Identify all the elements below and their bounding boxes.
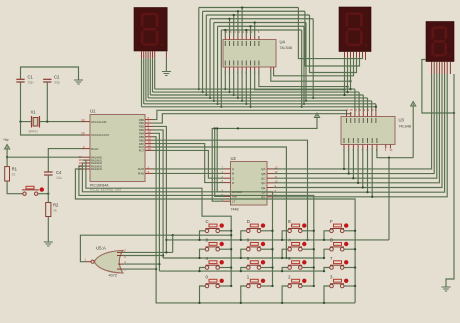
U4 bottom pin 7 name mark xyxy=(250,61,252,66)
U4 top pin 5 stub xyxy=(241,36,243,40)
svg-text:E: E xyxy=(288,219,291,224)
wire U4 right pin b xyxy=(271,70,351,81)
junction segment bus 6 end xyxy=(375,106,377,108)
junction U4 bottom pin 5 bus xyxy=(241,100,243,102)
svg-text:U2: U2 xyxy=(231,156,237,161)
resistor R2 xyxy=(46,203,51,217)
wire DS2 pin1 drop xyxy=(344,58,346,96)
U2 pin QB stub xyxy=(267,173,274,175)
U3 bottom pin 7 stub xyxy=(371,145,373,149)
DS2 segment pin 1 stub xyxy=(344,52,346,58)
wire RB7 to U2 D xyxy=(153,144,225,183)
U1 pin RB0 stub xyxy=(145,119,153,121)
svg-text:RB5: RB5 xyxy=(139,135,145,139)
junction button 9 row xyxy=(240,257,242,259)
junction U4 bottom pin 3 bus xyxy=(233,94,235,96)
junction U4 pin loop 1 xyxy=(237,10,239,12)
wire button E left to row xyxy=(282,231,288,240)
DS3 common pin stub xyxy=(449,62,451,75)
wire U3 bottom pin 1 to bus xyxy=(343,149,345,169)
wire DS1 common to ground xyxy=(165,58,167,71)
U5:A input3 stub xyxy=(117,255,123,257)
U5:A input2 stub xyxy=(117,251,123,253)
U4 top pin 8 stub xyxy=(254,36,256,40)
U3 top pin 4 stub xyxy=(358,112,360,116)
wire U4 bottom pin 2 drop xyxy=(229,70,231,92)
U4 bottom pin 1 name mark xyxy=(224,61,226,66)
wire button 1 left to row xyxy=(241,286,247,303)
U3 bottom pin 4 stub xyxy=(357,145,359,149)
U1 pin RA1 stub xyxy=(83,159,91,161)
push button 1 body xyxy=(247,279,261,288)
wire segment bus 0 to U3 top pin 3 xyxy=(354,89,356,112)
DS2 segment pin 3 stub xyxy=(350,52,352,58)
ground below R2 xyxy=(44,242,53,246)
junction +5V rail RBI branch xyxy=(214,127,216,129)
wire segment bus 1 to U3 top pin 4 xyxy=(358,92,360,112)
wire loop right drop 6 xyxy=(301,30,303,107)
or-gate U5:A body xyxy=(94,250,123,273)
U4 top pin 4 stub xyxy=(237,36,239,40)
wire RC6 to row2 right xyxy=(153,147,287,258)
svg-text:RA5: RA5 xyxy=(138,167,144,171)
wire U4 loop left drop 4 xyxy=(213,23,215,101)
U3 bottom pin 8 name mark xyxy=(376,138,378,143)
U4 top pin 2 name mark xyxy=(229,41,231,46)
wire DS2 pin2 drop xyxy=(347,58,349,93)
U5:A input5 stub xyxy=(117,268,123,270)
U1 pin OSC2/CLKOUT stub xyxy=(83,134,91,136)
junction RB6 row1 xyxy=(306,239,308,241)
wire U4 output loop riser 2 xyxy=(233,15,235,36)
wire U4 loop left drop 1 xyxy=(202,11,204,92)
U4 bottom pin 1 stub xyxy=(224,67,226,70)
DS3 segment pin 2 stub xyxy=(433,62,435,75)
U2 pin RBI stub xyxy=(224,195,231,197)
U4 bottom pin 6 stub xyxy=(245,67,247,70)
push button 2 body xyxy=(288,279,302,288)
wire DS1 riser 5 xyxy=(143,58,145,103)
wire reset button to node xyxy=(38,193,48,195)
wire button 5 left to row xyxy=(241,268,247,272)
U3 top pin 2 name mark xyxy=(350,118,352,123)
junction button A column xyxy=(313,248,315,250)
DS2 segment pin 2 stub xyxy=(347,52,349,58)
wire DS2 pin3 drop xyxy=(350,58,352,90)
wire U4 loop top 4 xyxy=(214,22,306,24)
U3 top pin 6 name mark xyxy=(367,118,369,123)
DS3 segment pin 3 stub xyxy=(436,62,438,75)
wire +5V rail to U2 RBI xyxy=(215,128,224,196)
junction loop-left segment bus 3 xyxy=(209,97,211,99)
wire U4 loop top 2 xyxy=(206,14,309,16)
junction loop-left segment bus 0 xyxy=(198,88,200,90)
U3 top pin 5 name mark xyxy=(362,118,364,123)
svg-text:1k: 1k xyxy=(53,209,57,213)
U3 bottom pin 1 name mark xyxy=(343,138,345,143)
push button 6 body xyxy=(288,261,302,270)
svg-text:RB4: RB4 xyxy=(139,132,145,136)
U4 top pin 7 stub xyxy=(250,36,252,40)
wire U4 pin16 riser xyxy=(224,30,226,36)
svg-text:U3: U3 xyxy=(399,118,405,123)
U1 pin OSC1/CLKIN stub xyxy=(83,121,91,123)
wire node to crystal left xyxy=(21,121,32,123)
capacitor C2 xyxy=(43,79,51,82)
junction button 8 row xyxy=(198,257,200,259)
svg-text:R2: R2 xyxy=(53,203,59,208)
wire keypad row1 xyxy=(166,239,389,241)
svg-text:26: 26 xyxy=(148,147,152,151)
push button D body xyxy=(247,224,261,233)
junction +5V rail BI branch xyxy=(216,127,218,129)
svg-text:X1: X1 xyxy=(31,110,37,115)
svg-text:R1: R1 xyxy=(12,167,18,172)
junction U4 pin loop 3 xyxy=(228,18,230,20)
junction button D column xyxy=(271,230,273,232)
wire button F right to column xyxy=(344,230,355,232)
svg-text:PIC16F84A: PIC16F84A xyxy=(90,184,109,188)
U4 top pin 8 name mark xyxy=(254,41,256,46)
wire U2 output bus line 0 xyxy=(274,74,432,169)
U4 bottom pin 10 stub xyxy=(270,67,272,70)
U4 top pin 1 stub xyxy=(224,36,226,40)
U1 pin MCLR stub xyxy=(83,148,91,150)
junction U4 bottom pin 4 bus xyxy=(237,97,239,99)
wire RA1 to column1 xyxy=(83,160,232,286)
U3 top pin 7 stub xyxy=(371,112,373,116)
wire U4 bottom pin 4 drop xyxy=(237,70,239,98)
U1 pin RB7 stub xyxy=(145,143,153,145)
wire PIC to U2 A xyxy=(153,168,225,170)
push button D red actuator xyxy=(261,223,265,227)
U2 pin QD stub xyxy=(267,182,274,184)
wire MCLR run xyxy=(48,149,84,172)
DS3 segment pin 5 stub xyxy=(441,62,443,75)
wire loop right drop 5 xyxy=(303,26,305,104)
wire gate input2 xyxy=(122,255,163,257)
wire U4 bottom pin 6 drop xyxy=(245,70,247,104)
U3 bottom pin 5 name mark xyxy=(362,138,364,143)
junction U4 bottom pin 6 bus xyxy=(245,103,247,105)
junction loop-left segment bus 2 xyxy=(205,94,207,96)
power +5V centre xyxy=(314,113,319,118)
U3 top pin 2 stub xyxy=(350,112,352,116)
junction button B column xyxy=(354,248,356,250)
7-segment display DS1 xyxy=(134,8,167,52)
wire U4 bottom pin 3 drop xyxy=(233,70,235,95)
U5:A input4 stub xyxy=(118,263,123,265)
wire +5V to RA0 node xyxy=(6,149,8,157)
U3 bottom pin 2 stub xyxy=(348,145,350,149)
button RESET red actuator xyxy=(40,187,44,191)
wire DS1 riser 4 xyxy=(145,58,147,101)
svg-text:16: 16 xyxy=(81,118,85,122)
wire button C right to column xyxy=(220,230,232,232)
U1 pin RA0 stub xyxy=(83,156,91,158)
wire button E right to column xyxy=(302,230,314,232)
junction reset node xyxy=(47,193,49,195)
U2 pin QA stub xyxy=(267,168,274,170)
wire segment bus 2 to U3 top pin 5 xyxy=(362,95,364,112)
U4 bottom pin 4 name mark xyxy=(237,61,239,66)
junction loop-left segment bus 6 xyxy=(220,106,222,108)
wire U3 BI line xyxy=(377,149,413,158)
U3 top pin 6 stub xyxy=(367,112,369,116)
wire button 8 left to row xyxy=(200,249,206,258)
wire U4 right pin d xyxy=(255,70,345,90)
wire U2 output bus line 4 xyxy=(274,74,443,188)
U4 top pin 7 name mark xyxy=(250,41,252,46)
wire button B left to row xyxy=(324,249,330,258)
wire RB2 row1 feed xyxy=(153,126,167,252)
U3 bottom pin 9 stub xyxy=(385,145,387,149)
U2 pin QF stub xyxy=(267,191,274,193)
wire U4 output loop riser 0 xyxy=(241,8,243,37)
junction button 2 row xyxy=(281,302,283,304)
wire button F left to row xyxy=(324,231,330,240)
junction U4 pin loop 4 xyxy=(254,21,256,23)
U4 bottom pin 2 name mark xyxy=(229,61,231,66)
svg-text:C2: C2 xyxy=(54,75,60,80)
wire PIC to U2 B xyxy=(153,172,225,174)
junction loop-left segment bus 1 xyxy=(201,91,203,93)
DS2 segment pin 4 stub xyxy=(353,52,355,58)
svg-text:10u: 10u xyxy=(56,176,62,180)
U3 bottom pin 10 stub xyxy=(389,145,391,149)
wire RA3 to column3 xyxy=(79,166,314,286)
wire button 0 right to column xyxy=(220,285,232,287)
wire R2 to ground xyxy=(47,217,49,243)
junction button 5 column xyxy=(271,266,273,268)
junction loop-left segment bus 5 xyxy=(216,103,218,105)
svg-text:C: C xyxy=(206,219,209,224)
svg-text:RA4/AN4: RA4/AN4 xyxy=(91,167,102,171)
U3 bottom pin 6 stub xyxy=(367,145,369,149)
junction RB3/input2 xyxy=(162,254,164,256)
svg-text:7448: 7448 xyxy=(231,208,239,212)
svg-text:U1: U1 xyxy=(90,109,96,114)
decoder U2 body xyxy=(231,162,268,206)
U2 pin C stub xyxy=(224,177,231,179)
wire button 7 left to row xyxy=(324,268,330,272)
U2 pin QC stub xyxy=(267,177,274,179)
U3 top pin 1 name mark xyxy=(346,118,348,123)
junction gate output column1 xyxy=(230,234,232,236)
wire U4 bottom pin 7 drop xyxy=(250,70,252,107)
junction button 3 row xyxy=(323,302,325,304)
wire C4 to reset node xyxy=(47,175,49,194)
wire U4 loop left drop 2 xyxy=(205,15,207,95)
wire button 8 right to column xyxy=(220,248,232,250)
wire keypad row2 xyxy=(163,257,324,259)
U3 bottom pin 6 name mark xyxy=(367,138,369,143)
push button E red actuator xyxy=(302,223,306,227)
capacitor C1 xyxy=(16,79,24,82)
svg-text:QE: QE xyxy=(261,186,265,190)
U4 bottom pin 9 stub xyxy=(258,67,260,70)
DS2 segment pin 6 stub xyxy=(359,52,361,58)
push button 5 red actuator xyxy=(261,260,265,264)
wire segment bus line 5 xyxy=(144,103,376,105)
junction RB2/row1 xyxy=(165,239,167,241)
wire RB3 row2 feed xyxy=(153,130,164,258)
U2 pin QG stub xyxy=(267,196,274,198)
junction RB5/gate input4 xyxy=(155,268,157,270)
crystal X1 xyxy=(32,116,40,128)
svg-text:F: F xyxy=(330,219,333,224)
junction C1/crystal xyxy=(19,120,21,122)
wire DS1 riser 1 xyxy=(152,58,154,92)
U1 pin RB4 stub xyxy=(145,132,153,134)
junction loop-right segment bus 5 xyxy=(303,103,305,105)
junction U4 pin16 loop xyxy=(224,29,226,31)
svg-text:RB2: RB2 xyxy=(139,125,145,129)
wire U3 bottom pin 5 to bus xyxy=(362,149,364,188)
wire button A right to column xyxy=(302,248,314,250)
junction button 0 row xyxy=(198,302,200,304)
wire +5V centre run xyxy=(212,118,317,202)
wire keypad row3 xyxy=(159,270,324,272)
svg-text:B: B xyxy=(232,172,234,176)
push button 9 body xyxy=(247,243,261,252)
wire gate output xyxy=(80,235,231,262)
ground below DS1 xyxy=(162,72,171,76)
wire row1 riser xyxy=(388,158,390,240)
junction U4 bottom pin 7 bus xyxy=(249,106,251,108)
wire U2 output bus line 6 xyxy=(274,74,448,197)
U4 top pin 4 name mark xyxy=(237,41,239,46)
wire U2 output bus line 1 xyxy=(274,74,435,174)
wire button 3 left to row xyxy=(324,286,330,303)
wire U4 loop top 5 xyxy=(218,25,304,27)
junction U4 bottom pin 1 bus xyxy=(224,88,226,90)
U3 bottom pin 1 stub xyxy=(343,145,345,149)
wire gate input1 xyxy=(122,251,173,253)
wire gate input3 xyxy=(122,263,159,265)
wire U4 output loop riser 1 xyxy=(237,11,239,36)
wire R1 top xyxy=(6,157,8,166)
wire C1 to crystal node xyxy=(20,82,22,122)
U4 top pin 6 stub xyxy=(245,36,247,40)
U4 top pin 9 stub xyxy=(258,36,260,40)
wire button 5 right to column xyxy=(261,267,273,269)
svg-text:LT: LT xyxy=(232,200,235,204)
push button 4 red actuator xyxy=(220,260,224,264)
push button 8 red actuator xyxy=(220,242,224,246)
push button RESET xyxy=(22,186,39,195)
wire segment bus 3 to U3 top pin 6 xyxy=(367,98,369,112)
push button E body xyxy=(288,224,302,233)
U1 pin RC6 stub xyxy=(145,146,153,148)
wire DS1 riser 3 xyxy=(147,58,149,98)
U2 pin BI/RBO stub xyxy=(224,191,231,193)
wire +5V rail to U2 BI xyxy=(217,128,224,192)
svg-text:U5:A: U5:A xyxy=(96,246,106,251)
wire R1 to reset button xyxy=(7,181,23,194)
U2 pin LT stub xyxy=(224,200,231,202)
junction button B row xyxy=(323,257,325,259)
wire loop to DS2 pin 2 xyxy=(310,15,357,73)
wire U4 loop top 1 xyxy=(203,10,305,12)
7-segment display DS2 xyxy=(339,7,371,52)
U1 pin RB2 stub xyxy=(145,125,153,127)
U1 pin RA5 stub xyxy=(145,168,153,170)
U1 pin RC7 stub xyxy=(145,149,153,151)
junction button E row xyxy=(281,239,283,241)
U4 bottom pin 4 stub xyxy=(237,67,239,70)
junction U3 bottom pin 5 bus xyxy=(362,186,364,188)
wire U3 bottom pin 4 to bus xyxy=(357,149,359,183)
wire U4 loop top 0 xyxy=(199,7,299,9)
svg-text:RB6: RB6 xyxy=(139,138,145,142)
junction button C row xyxy=(198,239,200,241)
svg-text:74LS48: 74LS48 xyxy=(280,46,292,50)
wire U2 output bus line 2 xyxy=(274,74,437,178)
U1 pin RA3 stub xyxy=(83,165,91,167)
U4 bottom pin 11 stub xyxy=(273,67,275,70)
wire button D right to column xyxy=(261,230,273,232)
U4 top pin 6 name mark xyxy=(245,41,247,46)
U4 bottom pin 8 name mark xyxy=(254,61,256,66)
wire DS3 common loop xyxy=(422,60,454,114)
svg-text:RC7: RC7 xyxy=(139,149,145,153)
wire U4 output loop riser 5 xyxy=(250,26,252,36)
U4 top pin 5 name mark xyxy=(241,41,243,46)
wire C1-C2-ground top rail xyxy=(21,67,79,80)
U4 bottom pin 3 name mark xyxy=(233,61,235,66)
U3 top pin 5 stub xyxy=(362,112,364,116)
wire button 4 right to column xyxy=(220,267,232,269)
junction button 6 column xyxy=(313,266,315,268)
U2 pin B stub xyxy=(224,172,231,174)
junction button 2 column xyxy=(313,285,315,287)
U4 top pin 3 stub xyxy=(233,36,235,40)
junction U3 bottom pin 3 bus xyxy=(352,177,354,179)
wire button 4 left to row xyxy=(200,268,206,272)
wire button 3 right to column xyxy=(344,285,355,287)
svg-text:QB: QB xyxy=(261,172,265,176)
svg-text:QA: QA xyxy=(261,167,265,171)
svg-text:RC6: RC6 xyxy=(139,145,145,149)
wire segment bus 4 to U3 top pin 7 xyxy=(371,101,373,112)
junction button D row xyxy=(240,239,242,241)
U1 pin RB5 stub xyxy=(145,136,153,138)
svg-text:74LS48: 74LS48 xyxy=(399,125,411,129)
U4 bottom pin 3 stub xyxy=(233,67,235,70)
wire RB5 bus feed xyxy=(153,137,356,303)
wire C2 to OSC1 node xyxy=(46,82,48,122)
U3 bottom pin 2 name mark xyxy=(348,138,350,143)
U4 bottom pin 6 name mark xyxy=(245,61,247,66)
junction U4 bottom pin 2 bus xyxy=(228,91,230,93)
wire U4 output loop riser 3 xyxy=(229,19,231,36)
DS2 segment pin 5 stub xyxy=(356,52,358,58)
wire segment bus 5 to U3 top pin 8 xyxy=(375,104,377,112)
U4 top pin 3 name mark xyxy=(233,41,235,46)
push button F body xyxy=(330,224,344,233)
junction button 4 column xyxy=(230,266,232,268)
wire button 0 left to row xyxy=(200,286,206,303)
U3 top pin 4 name mark xyxy=(358,118,360,123)
U3 top pin 8 stub xyxy=(375,112,377,116)
push button 3 red actuator xyxy=(344,279,348,283)
wire segment bus line 2 xyxy=(150,94,363,96)
wire button B right to column xyxy=(344,248,355,250)
U4 top pin 1 name mark xyxy=(224,41,226,46)
U1 pin RB3 stub xyxy=(145,129,153,131)
svg-text:D: D xyxy=(247,219,250,224)
